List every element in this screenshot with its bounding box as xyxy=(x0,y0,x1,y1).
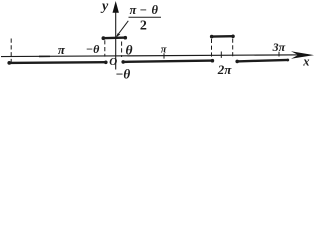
dashed vertical at 2pi-theta xyxy=(211,39,213,58)
dashed vertical at left edge xyxy=(10,39,12,63)
segment y=-t/2 right of origin xyxy=(123,61,214,62)
svg-text:−θ: −θ xyxy=(115,67,130,82)
svg-text:3π: 3π xyxy=(272,40,286,54)
dashed vertical at -theta xyxy=(104,40,106,56)
svg-text:π: π xyxy=(130,3,138,17)
x-axis thick dash near -pi xyxy=(39,55,50,57)
dashed vertical at 2pi+theta xyxy=(232,39,234,58)
x-axis arrowhead xyxy=(291,51,314,59)
svg-text:θ: θ xyxy=(152,3,159,17)
segment y=-t/2 right of 2pi xyxy=(237,60,289,62)
svg-text:2: 2 xyxy=(140,18,147,33)
svg-text:−θ: −θ xyxy=(86,42,100,56)
dashed vertical at theta xyxy=(121,42,123,58)
y-axis arrowhead xyxy=(113,1,119,13)
tick at 3pi xyxy=(278,52,280,57)
svg-text:π: π xyxy=(58,43,66,57)
leader line to fraction xyxy=(117,21,128,36)
tick at 2pi xyxy=(220,52,222,58)
tick at pi xyxy=(163,53,165,58)
svg-text:−: − xyxy=(140,3,147,17)
fraction bar xyxy=(129,16,162,18)
svg-text:2π: 2π xyxy=(217,62,233,77)
svg-text:θ: θ xyxy=(126,42,133,57)
y-axis xyxy=(115,8,117,70)
top bar over origin xyxy=(103,36,127,39)
pulse top bar at 2pi xyxy=(211,35,234,38)
segment y=-t/2 left of origin xyxy=(8,61,106,64)
x-axis xyxy=(1,55,308,57)
svg-text:π: π xyxy=(161,44,167,55)
svg-text:y: y xyxy=(100,0,109,14)
svg-text:x: x xyxy=(302,54,309,68)
